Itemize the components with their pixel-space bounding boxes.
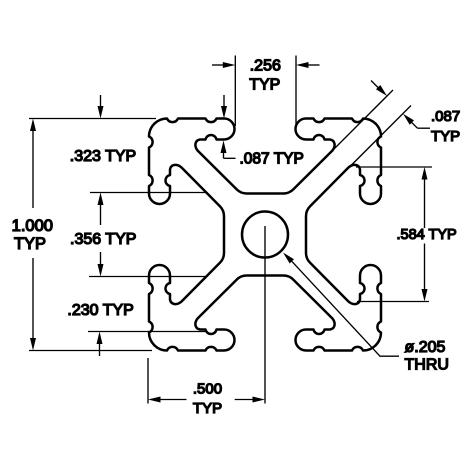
dimension .584 TYP (slot cavity width behind lips, right): [356, 167, 457, 302]
svg-text:.584 TYP: .584 TYP: [397, 227, 457, 243]
extrusion profile outline: top side (tabs, T-slot opening, slot cavity): [154, 119, 375, 194]
svg-text:.087: .087: [431, 108, 460, 125]
dimensions .323 / .356 / .230 TYP (slot depth, core width, cavity depth; left stack): [67, 95, 206, 356]
vertical centerline through bore: [264, 226, 266, 404]
svg-text:TYP: TYP: [193, 400, 222, 417]
leader and note ø.205 THRU (center bore callout): [283, 253, 449, 374]
svg-text:1.000: 1.000: [12, 217, 53, 235]
svg-text:TYP: TYP: [14, 235, 46, 253]
extrusion profile outline: left side (rotated copy): [149, 124, 224, 345]
center through-bore circle: [242, 212, 288, 258]
extrusion profile outline: right side (rotated copy): [306, 124, 381, 345]
dimension 1.000 TYP (overall height, left): [12, 119, 156, 351]
svg-text:TYP: TYP: [249, 77, 280, 94]
svg-text:.323 TYP: .323 TYP: [70, 148, 136, 165]
extrusion profile outline: bottom side (rotated copy): [154, 276, 375, 351]
svg-text:.230 TYP: .230 TYP: [67, 302, 133, 319]
svg-text:.087 TYP: .087 TYP: [240, 151, 304, 168]
svg-text:TYP: TYP: [431, 128, 460, 145]
web wall extension lines and dimension .087 TYP (web thickness, top right): [302, 81, 460, 199]
dimension .500 TYP (face to centerline, bottom): [148, 358, 265, 417]
svg-text:.356 TYP: .356 TYP: [70, 231, 136, 248]
svg-text:.256: .256: [250, 58, 281, 75]
svg-text:.500: .500: [193, 381, 222, 398]
svg-text:ø.205: ø.205: [405, 339, 446, 356]
dimension .256 TYP (slot opening width, top): [212, 56, 320, 127]
dimension .087 TYP (lip thickness, arrows at top slot left lip): [221, 95, 304, 168]
svg-text:THRU: THRU: [405, 357, 449, 374]
